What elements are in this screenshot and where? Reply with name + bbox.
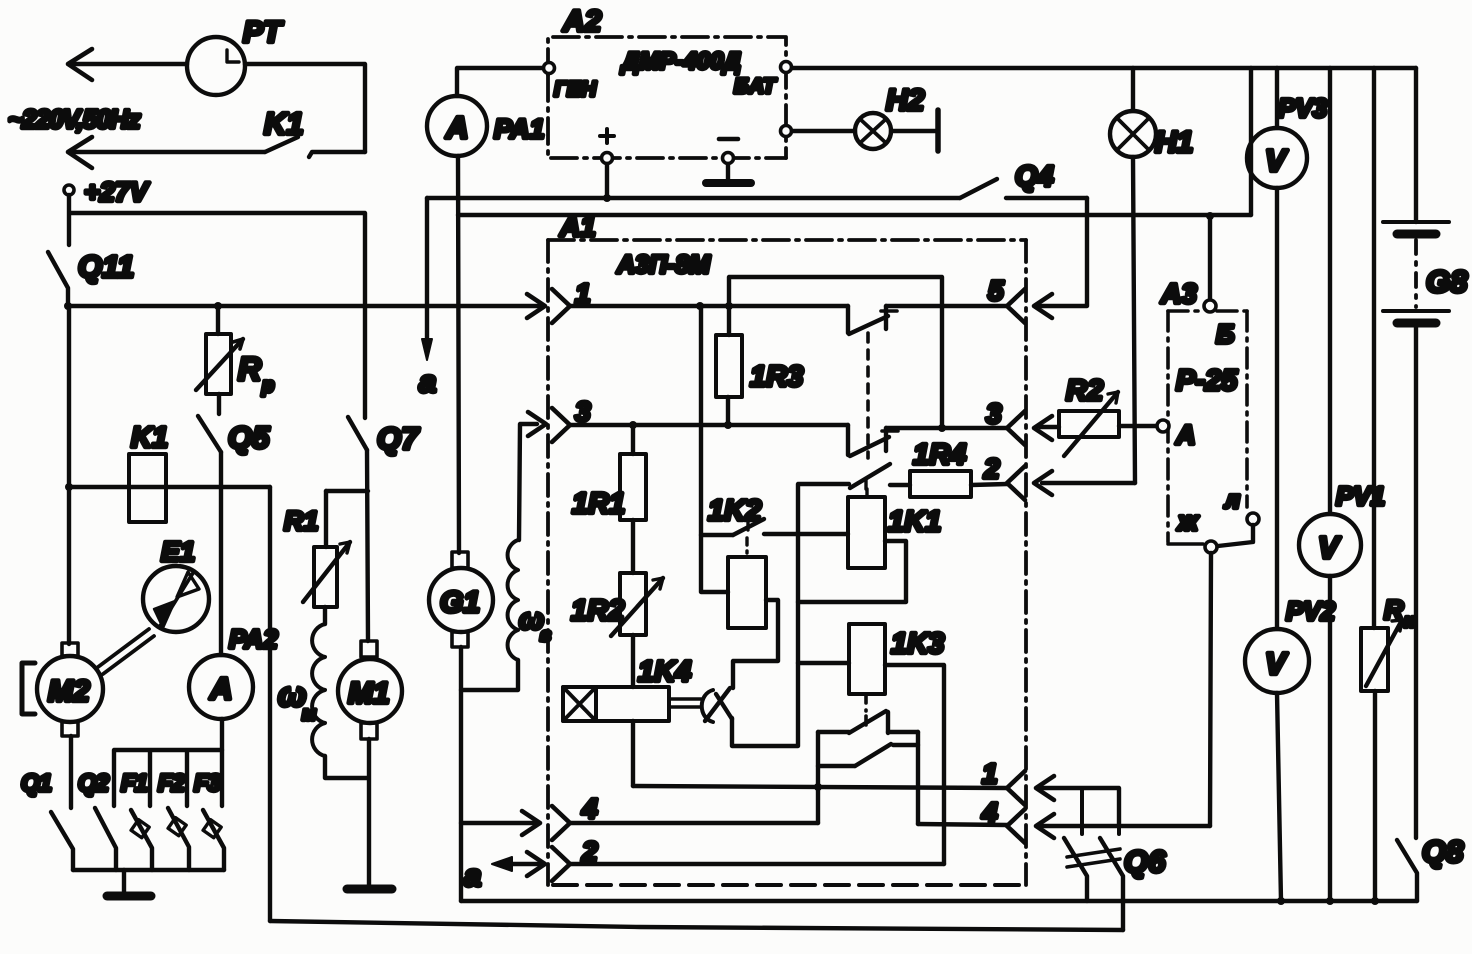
svg-text:K1: K1 (264, 106, 304, 141)
wire PV1 down (1328, 576, 1332, 901)
pin 2 right (983, 453, 1025, 500)
svg-text:Q1: Q1 (21, 770, 52, 797)
wire PA1 down to G1 (458, 156, 459, 553)
contact 1K3 lower (818, 744, 918, 766)
ammeter PA1 (427, 96, 545, 156)
svg-text:ГEH: ГEH (554, 78, 597, 101)
wire plus down to bus198 (605, 164, 609, 198)
arrow into pin2 right (1034, 471, 1052, 495)
svg-text:PV1: PV1 (1336, 481, 1385, 511)
terminal minus (719, 139, 738, 164)
svg-text:Q2: Q2 (78, 770, 110, 797)
svg-text:~220V,50Hz: ~220V,50Hz (8, 104, 140, 134)
svg-text:1K2: 1K2 (708, 495, 761, 527)
switch Q1 (21, 770, 73, 870)
voltmeter PV1 (1299, 68, 1385, 576)
wire pin4 left row (570, 821, 818, 825)
wire winding to pin3 arrow (519, 424, 537, 540)
resistor 1R4 (890, 439, 1007, 497)
linkage 1K4 double line (669, 699, 701, 707)
wire H1 down to pin2 (1133, 157, 1135, 483)
resistor R1 (284, 491, 350, 607)
generator G1 (429, 552, 493, 647)
svg-text:A: A (209, 671, 232, 706)
ground breakers (107, 870, 151, 896)
svg-text:Q8: Q8 (1422, 834, 1464, 869)
node PV2 bus (1277, 897, 1285, 905)
contact on bus1 (848, 306, 897, 334)
svg-text:2: 2 (983, 453, 1000, 484)
svg-text:P-25: P-25 (1176, 365, 1238, 397)
svg-text:a: a (464, 858, 481, 893)
rheostat Rn (1361, 68, 1415, 901)
terminal +27V (64, 177, 150, 207)
svg-text:F3: F3 (194, 770, 222, 797)
wire bus 306 to A1 pin1 (68, 304, 543, 308)
svg-text:1K4: 1K4 (638, 656, 691, 688)
pin 2 left (552, 836, 598, 881)
arrow into pin4 left (522, 811, 540, 835)
svg-text:G8: G8 (1426, 264, 1468, 299)
contact 1K1-1R4 (850, 464, 890, 489)
svg-text:p: p (261, 375, 274, 397)
wire bus3 inside A1 (570, 423, 848, 427)
svg-text:A3: A3 (1160, 278, 1197, 309)
svg-text:F2: F2 (158, 770, 186, 797)
winding Wv coil (508, 540, 551, 660)
wire bus1 inside A1 (570, 304, 848, 308)
unit A3 box P-25 (1160, 278, 1247, 544)
ammeter PA2 (189, 624, 278, 719)
shaft M2-E1 (98, 629, 154, 674)
svg-text:V: V (1265, 646, 1288, 681)
wire pin2 row inside A1 (570, 862, 944, 866)
wire +27V down (67, 195, 71, 245)
wire bypass 1R3 top (729, 277, 942, 428)
pin 1 left (552, 278, 591, 323)
wire breaker comb bar (114, 750, 222, 806)
wire +27V feeder (71, 213, 365, 418)
svg-text:1R1: 1R1 (572, 488, 625, 520)
svg-text:M2: M2 (48, 675, 90, 708)
wire 1K2 coil out path (733, 600, 778, 688)
svg-text:1R2: 1R2 (571, 595, 624, 627)
relay coil 1K1 (848, 489, 941, 568)
battery G8 (1383, 68, 1468, 838)
contact on bus3 (848, 425, 898, 456)
wire R1 tee (326, 489, 368, 493)
voltmeter PV2 (1245, 596, 1336, 693)
svg-text:A3П-8M: A3П-8M (616, 251, 711, 279)
wire Q4 to pin5 (1040, 198, 1087, 306)
wire pin1 row inside A1 (633, 786, 1007, 788)
node bus1 x700 (696, 302, 704, 310)
node PV1 bus (1326, 897, 1334, 905)
breaker F3 (194, 770, 224, 870)
arrow into pin3 left (528, 412, 546, 436)
arrow mains lower (68, 137, 92, 168)
arrow into pin3 right (1034, 416, 1052, 440)
wire bus215 (458, 213, 1251, 217)
svg-text:1K3: 1K3 (891, 628, 944, 660)
svg-text:Q6: Q6 (1124, 844, 1166, 879)
arrow into pin1 (527, 294, 545, 318)
winding Wm coil (278, 607, 368, 778)
wire PV3 to PV2 (1275, 188, 1279, 629)
wire 1K2 feed vertical (701, 306, 728, 592)
contact 1K2 (701, 495, 764, 553)
switch Q2 (78, 770, 116, 870)
voltmeter PV3 (1247, 68, 1328, 188)
breaker F1 (121, 770, 152, 870)
svg-text:A: A (445, 110, 468, 145)
wire PA1 to GEN (457, 68, 543, 96)
link 1K3 armature dashed (864, 694, 868, 729)
wire pin2 to H1 column (1042, 481, 1135, 485)
wire Q7 down to M1 (367, 450, 368, 641)
svg-text:Q5: Q5 (228, 420, 270, 455)
wire 1K4 bottom to pin1 wire (631, 721, 635, 786)
svg-text:5: 5 (988, 275, 1004, 306)
wire PV2 down (1277, 693, 1281, 901)
link 1K1 armature (dashed) (866, 333, 870, 458)
switch Q8 (1397, 834, 1464, 901)
breaker F2 (158, 770, 189, 870)
wire G1 tee to winding (461, 660, 518, 690)
wire PT right (245, 64, 365, 152)
relay coil K1 (129, 422, 168, 522)
svg-text:F1: F1 (121, 770, 148, 797)
node bus3 1R1 (629, 421, 637, 429)
wire top bus (792, 66, 1416, 70)
terminal B (P-25) (1204, 216, 1216, 312)
lamp H2 (792, 84, 938, 151)
node Rp tee (214, 302, 222, 310)
arrow into pin4 right (1036, 814, 1054, 838)
svg-text:1K1: 1K1 (888, 506, 941, 538)
terminal BAT lower (734, 75, 792, 137)
pin 4 left (552, 793, 598, 840)
svg-text:A2: A2 (562, 5, 602, 38)
pin 5 right (988, 275, 1025, 323)
wire bus1 right part (886, 304, 1007, 308)
svg-text:1R3: 1R3 (750, 361, 803, 393)
svg-text:Q7: Q7 (377, 421, 420, 456)
svg-text:м: м (302, 704, 316, 725)
exciter E1 (143, 536, 209, 632)
svg-text:a: a (419, 364, 436, 399)
svg-text:R: R (238, 351, 261, 387)
link Q6 bars (1067, 849, 1120, 867)
svg-text:H1: H1 (1155, 126, 1193, 159)
svg-text:ДMP-400Д: ДMP-400Д (620, 48, 741, 75)
arrow mains upper (68, 49, 92, 80)
relay coil 1K3 (849, 624, 944, 694)
motor M2 (22, 643, 103, 736)
svg-text:E1: E1 (161, 536, 195, 567)
terminal plus (600, 129, 614, 164)
wire Q5 to PA2 (219, 452, 223, 655)
svg-text:PV3: PV3 (1278, 93, 1328, 123)
arrow a reference left (464, 852, 545, 893)
svg-text:4: 4 (581, 793, 598, 824)
svg-text:PT: PT (243, 16, 284, 49)
wire PA2 down (220, 719, 224, 750)
wire lever to riser (732, 484, 849, 746)
switch Q4 (960, 161, 1087, 198)
svg-text:3: 3 (986, 398, 1002, 429)
svg-text:БAT: БAT (734, 75, 777, 98)
wire M1 down (367, 739, 371, 886)
switch Q5 (198, 394, 270, 455)
arrow into pin1 right (1036, 776, 1054, 800)
node K1coil wire (65, 483, 73, 491)
svg-text:V: V (1265, 143, 1288, 178)
wire pin1 to connector (1042, 788, 1119, 826)
wire M2 column (67, 306, 71, 644)
contact 1K3 upper (818, 711, 918, 733)
node bypass joins bus3 (938, 424, 946, 432)
svg-text:R2: R2 (1066, 375, 1103, 407)
lever valve symbol (702, 688, 732, 722)
wire 1K3 right to pin2 column (885, 665, 944, 864)
wire bottom bus lower (270, 921, 1123, 930)
pin 3 right (986, 398, 1025, 445)
node pin1 wire x818 (814, 783, 822, 791)
wire bottom bus (G1 rail) (461, 899, 1417, 903)
svg-text:1: 1 (982, 758, 998, 789)
resistor 1R3 (716, 306, 803, 425)
svg-text:PA1: PA1 (494, 114, 545, 144)
switch Q7 (348, 417, 420, 456)
resistor Rp (196, 306, 274, 397)
pin 4 right (981, 797, 1025, 843)
terminal BAT upper (781, 62, 792, 73)
wire pin4 right row (918, 824, 1007, 825)
motor M1 (338, 641, 402, 739)
wire 1K2 contact to 1K1 (764, 532, 848, 536)
wire breaker rail (73, 868, 224, 872)
meter PT (187, 16, 284, 95)
switch Q11 (48, 249, 134, 306)
terminal GEN (544, 63, 597, 102)
svg-text:A: A (1175, 420, 1196, 450)
wire riser tee to 1K1 right (798, 541, 906, 602)
arrow a (down) (419, 339, 436, 399)
svg-text:A1: A1 (559, 211, 596, 242)
unit A1 box (548, 211, 1026, 885)
svg-text:Q4: Q4 (1015, 161, 1054, 193)
ground DMR (706, 164, 751, 183)
svg-text:R: R (1384, 595, 1404, 625)
pin 1 right (982, 758, 1025, 805)
wire K1 coil row (69, 485, 270, 489)
svg-text:Б: Б (1216, 319, 1234, 349)
wire bus3 right part (886, 426, 1007, 430)
wire R2 to terminal A (1119, 424, 1157, 428)
svg-text:н: н (1404, 611, 1415, 631)
switch Q6 pole2 (1100, 838, 1123, 930)
resistor 1R1 (572, 425, 646, 573)
arrow into pin5 (1034, 294, 1052, 318)
switch Q6 pole1 (1064, 838, 1087, 901)
wire 1K3 feed (798, 661, 849, 665)
wire M2 down (69, 736, 73, 808)
node bus215 at B (1206, 212, 1214, 220)
svg-text:3: 3 (575, 396, 591, 427)
wire bus198 (427, 196, 960, 200)
unit A2 box (548, 5, 786, 158)
node bus3 1R3 (724, 421, 732, 429)
wire bus215 riser (1249, 68, 1253, 215)
svg-text:R1: R1 (284, 506, 319, 536)
svg-text:в: в (540, 625, 551, 645)
wire G1 down (459, 647, 463, 901)
ground M1 (347, 885, 392, 894)
jumper Zh-L (1218, 525, 1253, 546)
electromagnet 1K4 (563, 656, 691, 721)
wire mains upper (74, 62, 187, 66)
svg-text:V: V (1318, 530, 1341, 565)
terminal Zh (P-25) (1176, 506, 1217, 553)
svg-text:H2: H2 (886, 84, 925, 117)
node bus306 left (64, 302, 72, 310)
svg-text:л: л (1224, 487, 1240, 514)
svg-text:+27V: +27V (84, 177, 150, 207)
wire K1-row down to bottom bus (268, 487, 272, 921)
node bus1 x729 (725, 302, 733, 310)
svg-text:1R4: 1R4 (913, 439, 966, 471)
svg-text:M1: M1 (348, 677, 390, 710)
wire Zh down to Q6 row (1210, 553, 1211, 826)
svg-text:K1: K1 (131, 422, 168, 454)
switch K1 (mains) (72, 106, 365, 157)
lamp H1 (1110, 68, 1193, 159)
pin 3 left (552, 396, 591, 442)
svg-text:Q11: Q11 (78, 249, 134, 284)
rheostat R2 (1040, 375, 1119, 456)
wire a-drop (425, 198, 429, 341)
node Rn bus (1371, 897, 1379, 905)
svg-text:ж: ж (1176, 506, 1200, 536)
relay coil 1K2 (728, 557, 766, 628)
svg-text:PA2: PA2 (229, 624, 278, 654)
wire contact columns (818, 732, 918, 824)
terminal A (P-25) (1157, 420, 1196, 450)
resistor 1R2 (571, 573, 663, 687)
svg-text:G1: G1 (440, 586, 480, 619)
terminal L (P-25) (1224, 487, 1259, 525)
connector bars (1082, 788, 1119, 834)
wire G1 tee to pin4 (461, 821, 536, 825)
wire pin4 row to Zh (1042, 824, 1210, 828)
